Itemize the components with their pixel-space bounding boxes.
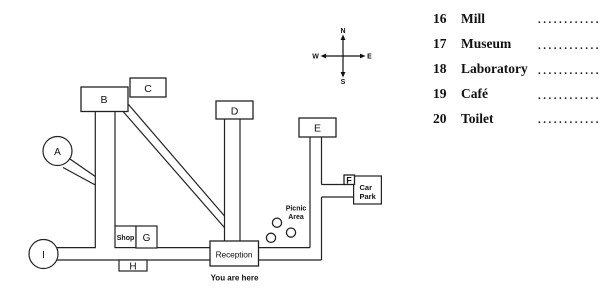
- road: diagonal road upper line (B/C to D road): [129, 105, 225, 217]
- svg-text:Shop: Shop: [117, 235, 135, 242]
- svg-text:A: A: [54, 147, 61, 158]
- road: B road right line: [114, 111, 116, 226]
- picnic circle 1: [272, 218, 281, 227]
- map drawing: [0, 0, 440, 291]
- svg-text:W: W: [312, 54, 319, 61]
- svg-text:B: B: [100, 94, 107, 106]
- picnic circle 2: [286, 228, 295, 237]
- building B: [81, 87, 128, 112]
- road: bottom line Reception to E road: [259, 259, 322, 261]
- road: E road right line lower segment: [321, 197, 323, 260]
- road: bottom line I to Reception: [54, 259, 210, 261]
- compass rose: [323, 38, 363, 73]
- svg-text:Picnic: Picnic: [286, 206, 307, 213]
- shop box: [115, 226, 136, 248]
- road: spur from A lower line: [63, 168, 95, 186]
- svg-text:E: E: [367, 54, 372, 61]
- svg-text:F: F: [346, 176, 352, 186]
- svg-text:You are here: You are here: [211, 274, 259, 283]
- circle A: [43, 137, 72, 166]
- road: E road left line: [309, 137, 311, 248]
- road: D road left line: [224, 119, 226, 241]
- svg-text:G: G: [143, 233, 151, 244]
- svg-text:Area: Area: [288, 214, 304, 221]
- svg-text:Car: Car: [360, 183, 373, 192]
- svg-text:N: N: [340, 28, 345, 35]
- building H: [119, 260, 147, 273]
- picnic area label: [286, 206, 307, 222]
- road: E road right line upper segment: [321, 137, 323, 185]
- road: car park spur top line: [322, 184, 346, 186]
- svg-text:S: S: [341, 79, 346, 86]
- building G: [136, 226, 157, 248]
- road: car park spur bottom line: [322, 196, 354, 198]
- question 18: [433, 61, 447, 77]
- building C: [130, 78, 166, 97]
- building E: [299, 118, 336, 137]
- car park box: [354, 176, 382, 204]
- road: spur from A upper line: [69, 158, 96, 177]
- svg-text:E: E: [314, 123, 321, 135]
- svg-text:I: I: [42, 250, 45, 261]
- road: horizontal main road top line (I to B road corner): [56, 111, 95, 247]
- road: top line between G and Reception: [157, 247, 210, 249]
- circle I: [29, 240, 58, 269]
- question 19: [433, 86, 447, 102]
- road: top line between Reception and E road: [259, 247, 311, 249]
- question 16: [433, 11, 447, 27]
- svg-text:D: D: [231, 106, 239, 118]
- svg-text:C: C: [144, 83, 152, 95]
- svg-text:H: H: [129, 262, 136, 273]
- question 17: [433, 36, 447, 52]
- you are here label: [211, 274, 259, 283]
- road: diagonal road lower line: [123, 111, 225, 228]
- picnic circle 3: [266, 233, 275, 242]
- building F: [344, 175, 355, 186]
- road: D road right line: [239, 119, 241, 241]
- question 20: [433, 111, 447, 127]
- svg-text:Reception: Reception: [216, 250, 253, 260]
- reception box: [210, 241, 259, 266]
- svg-text:Park: Park: [360, 192, 377, 201]
- building D: [216, 101, 253, 119]
